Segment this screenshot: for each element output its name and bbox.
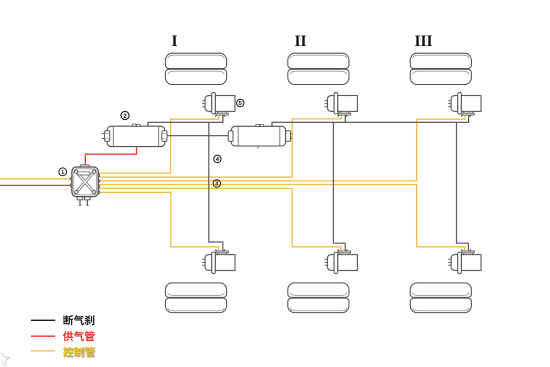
legend label brake line xyxy=(63,315,94,325)
svg-text:III: III xyxy=(414,33,432,50)
watermark scribble xyxy=(1,353,10,365)
valve 1 slot xyxy=(78,172,91,175)
middle tank right fitting xyxy=(286,131,291,142)
legend label supply line xyxy=(63,331,95,341)
leveling valve axle II bottom xyxy=(325,250,358,274)
tank 2 cap lines xyxy=(113,127,158,147)
tank 2 body xyxy=(107,126,165,146)
legend red line xyxy=(31,335,55,337)
valve 1 bottom nuts xyxy=(77,196,83,199)
label 4 xyxy=(214,155,221,163)
wire junction to top valve II xyxy=(344,115,346,122)
tank 2 top ports xyxy=(133,124,136,126)
valve 1 X brace xyxy=(77,172,94,192)
wire control line valve1 to bottom valve II xyxy=(98,188,341,251)
label 2 xyxy=(121,111,129,119)
wire supply tank2 to valve 1 xyxy=(85,147,136,166)
tank 2 right fitting xyxy=(162,131,167,142)
middle tank cap lines xyxy=(238,127,280,146)
air spring axle I bottom xyxy=(165,283,226,313)
middle tank drain xyxy=(257,146,259,148)
svg-text:I: I xyxy=(171,33,177,50)
wire drop to bottom valve II xyxy=(333,122,345,251)
valve 1 corner bolts xyxy=(75,170,78,173)
legend yellow line xyxy=(31,350,55,352)
air spring axle II top xyxy=(288,53,349,84)
air spring axle III top xyxy=(410,53,471,84)
wire tank2 top to top valve I xyxy=(148,115,223,126)
wire middle tank top to top valve III xyxy=(272,115,469,126)
leveling valve 5 (axle I top) xyxy=(202,92,235,116)
air spring axle I top xyxy=(165,53,226,84)
wire red input from left to valve 1 xyxy=(0,184,71,186)
valve 1 body xyxy=(72,167,98,197)
wire drop to bottom valve I xyxy=(209,122,223,251)
wire control line valve1 to top valve III xyxy=(98,115,465,181)
legend label control line xyxy=(64,347,96,357)
middle tank left fitting xyxy=(228,131,233,142)
middle tank body xyxy=(231,126,285,146)
air spring axle III bottom xyxy=(410,283,471,313)
legend black line xyxy=(31,319,55,321)
label 5 xyxy=(237,99,244,107)
label 1 xyxy=(59,168,67,176)
wire drop to bottom valve III xyxy=(457,122,469,251)
tank 2 left fitting xyxy=(105,131,110,142)
leveling valve axle III bottom xyxy=(448,250,481,274)
valve 1 side bumps xyxy=(70,177,73,180)
valve 1 top tab xyxy=(80,165,89,168)
valve 1 legs xyxy=(80,200,87,206)
leveling valve axle I bottom xyxy=(202,250,235,274)
wire control line valve1 to bottom valve I xyxy=(98,192,219,251)
wire control line valve1 to bottom valve III xyxy=(98,185,465,252)
middle tank top ports xyxy=(256,124,259,126)
svg-text:2: 2 xyxy=(123,113,127,120)
leveling valve axle II top xyxy=(325,92,358,116)
wire control line valve1 to top valve I xyxy=(98,115,219,174)
leveling valve axle III top xyxy=(448,92,481,116)
wire yellow input from left to valve 1 xyxy=(0,178,71,180)
svg-text:II: II xyxy=(294,33,306,50)
air spring axle II bottom xyxy=(288,283,349,313)
wire control line valve1 to top valve II xyxy=(98,115,341,178)
wire tank2 to middle tank xyxy=(166,135,228,137)
label 3 xyxy=(213,180,220,188)
